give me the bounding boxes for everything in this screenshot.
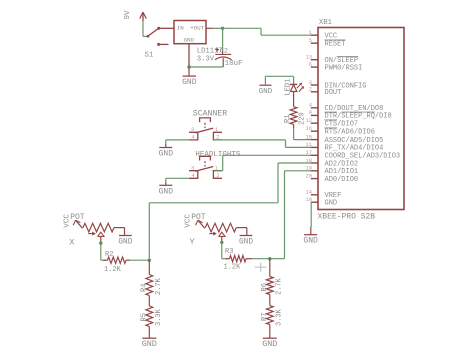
svg-text:3: 3: [309, 80, 312, 86]
voltage regulator IC1 LD1117 box: [174, 21, 206, 44]
wire X node up and right to XBee AD2 pin 18: [149, 163, 311, 260]
wire Y node right and up to XBee AD1 pin 19: [270, 171, 311, 259]
svg-text:18: 18: [306, 158, 312, 164]
pushbutton HEADLIGHTS S3: [189, 156, 222, 178]
svg-text:GND: GND: [142, 339, 157, 349]
XB1 pin 3 DIN/CONFIG: [309, 80, 367, 91]
capacitor C2 10uF polarized: [215, 48, 232, 67]
svg-text:5: 5: [309, 38, 312, 44]
label LED1: [285, 79, 293, 96]
svg-text:GND: GND: [259, 88, 273, 96]
svg-text:RESET: RESET: [325, 41, 346, 49]
XB1 pin 19 AD1/DIO1: [306, 166, 359, 177]
svg-text:4: 4: [191, 173, 194, 179]
XB1 pin 15 ASSOC/AD5/DIO5: [306, 134, 384, 145]
svg-text:+OUT: +OUT: [190, 25, 204, 32]
svg-text:GND: GND: [118, 239, 132, 247]
ground symbol below HEADLIGHTS: [159, 185, 174, 196]
node junction regulator ground: [187, 65, 190, 68]
svg-text:2: 2: [309, 87, 312, 93]
XB1 pin 4 CD/DOUT_EN/DO8: [309, 103, 384, 114]
switch S1: [145, 27, 175, 60]
XB1 pin 17 COORD_SEL/AD3/DIO3: [306, 150, 401, 161]
svg-text:AD2/DIO2: AD2/DIO2: [325, 160, 359, 168]
svg-text:9: 9: [309, 110, 312, 116]
svg-text:17: 17: [306, 150, 312, 156]
svg-text:R4: R4: [140, 284, 148, 292]
label 2.7K for R4: [155, 277, 163, 295]
wire R1 to XBee ASSOC pin 15: [294, 128, 311, 140]
svg-text:4: 4: [309, 103, 312, 109]
XB1 pin 2 DOUT: [309, 87, 342, 98]
label 1.2K for R3: [224, 264, 242, 272]
XB1 pin 16 RTS/AD6/DIO6: [306, 126, 375, 137]
label LD1117 3.3V: [197, 48, 223, 64]
svg-text:20: 20: [306, 173, 312, 179]
svg-text:2.7K: 2.7K: [155, 277, 163, 295]
svg-text:XB1: XB1: [319, 19, 332, 27]
svg-text:DOUT: DOUT: [325, 89, 342, 97]
label XB1: [319, 19, 332, 27]
label R1: [284, 115, 292, 123]
wire regulator OUT to node: [206, 27, 223, 29]
ground symbol near LED1: [259, 85, 273, 96]
ground symbol below XBee: [303, 227, 318, 246]
wire 9V to switch S1: [143, 21, 148, 37]
svg-text:4: 4: [191, 135, 194, 141]
pin labels SCANNER: [191, 127, 220, 141]
svg-text:3: 3: [191, 166, 194, 172]
label HEADLIGHTS: [195, 151, 241, 159]
XB1 pin 18 AD2/DIO2: [306, 158, 359, 169]
XB1 pin 10 GND: [306, 197, 338, 208]
svg-text:S1: S1: [145, 52, 154, 60]
resistor R5: [146, 306, 153, 338]
svg-text:AD0/DIO0: AD0/DIO0: [325, 176, 359, 184]
svg-text:11: 11: [306, 142, 312, 148]
XB1 pin 14 VREF: [306, 190, 342, 201]
svg-text:GND: GND: [239, 239, 253, 247]
label VCC for pot X: [64, 214, 72, 228]
label 3.3K for R5: [155, 308, 163, 326]
IC XB1 XBEE-PRO S2B box: [318, 28, 404, 210]
svg-text:RF_TX/AD4/DIO4: RF_TX/AD4/DIO4: [325, 145, 384, 153]
label R5: [140, 313, 148, 321]
svg-text:GND: GND: [262, 339, 277, 349]
svg-text:19: 19: [306, 166, 312, 172]
wire OUT node to XBee VCC pin 1: [223, 28, 311, 35]
label 220: [299, 112, 307, 125]
XB1 pin 12 CTS/DIO7: [306, 118, 359, 129]
svg-text:1: 1: [309, 30, 312, 36]
wire XBee GND pin 10 down: [310, 202, 312, 227]
svg-text:SCANNER: SCANNER: [193, 109, 227, 118]
svg-text:16: 16: [306, 126, 312, 132]
XB1 pin 9 DTR/SLEEP_RQ/DI8: [309, 110, 392, 121]
svg-text:14: 14: [306, 190, 312, 196]
svg-text:R5: R5: [140, 313, 148, 321]
resistor R4: [146, 260, 153, 306]
svg-text:9V: 9V: [124, 10, 132, 20]
svg-text:3.3K: 3.3K: [275, 308, 283, 326]
label 2.7K for R6: [275, 277, 283, 295]
pushbutton SCANNER S2: [189, 118, 222, 140]
wire X wiper node down to R2: [101, 243, 106, 260]
svg-text:LED1: LED1: [285, 79, 293, 96]
label POT for pot Y: [191, 213, 206, 222]
LED LED1: [290, 83, 304, 99]
svg-text:ASSOC/AD5/DIO5: ASSOC/AD5/DIO5: [325, 137, 384, 145]
svg-text:GND: GND: [159, 187, 174, 196]
svg-text:1.2K: 1.2K: [224, 264, 242, 272]
svg-text:GND: GND: [159, 150, 174, 159]
svg-text:X: X: [69, 237, 74, 247]
resistor R1: [290, 99, 297, 129]
wire Y wiper node down to R3: [222, 242, 228, 258]
label C2: [220, 47, 228, 55]
label VCC for pot Y: [185, 214, 193, 228]
svg-text:R7: R7: [261, 313, 269, 321]
label R2: [105, 251, 113, 259]
svg-text:IN: IN: [177, 25, 184, 32]
label R7: [261, 313, 269, 321]
ground symbol for pot Y: [239, 236, 253, 247]
wire SCANNER to ground: [166, 140, 189, 147]
svg-text:10uF: 10uF: [225, 60, 243, 68]
svg-text:13: 13: [306, 55, 312, 61]
svg-text:2.7K: 2.7K: [275, 277, 283, 295]
label SCANNER: [193, 109, 227, 118]
svg-text:AD1/DIO1: AD1/DIO1: [325, 168, 359, 176]
svg-text:R6: R6: [261, 283, 269, 291]
label POT for pot X: [70, 213, 85, 222]
resistor R7: [266, 306, 273, 339]
resistor R2: [104, 257, 131, 263]
label XBEE-PRO S2B: [318, 213, 376, 222]
potentiometer R_Y: [196, 220, 247, 242]
resistor R3: [226, 256, 253, 262]
label 1.2K: [104, 266, 122, 274]
XB1 pin 11 RF_TX/AD4/DIO4: [306, 142, 384, 153]
svg-text:GND: GND: [325, 200, 338, 208]
svg-text:12: 12: [306, 118, 312, 124]
XB1 pin 20 AD0/DIO0: [306, 173, 359, 184]
svg-text:15: 15: [306, 134, 312, 140]
svg-text:RTS/AD6/DIO6: RTS/AD6/DIO6: [325, 129, 375, 137]
wire capacitor C2 to regulator GND: [189, 66, 223, 68]
svg-text:3.3V: 3.3V: [197, 55, 215, 63]
label R6: [261, 283, 269, 291]
wire HEADLIGHTS to ground: [166, 178, 189, 185]
ground symbol below R5: [142, 338, 157, 349]
wire R2 to node: [130, 259, 149, 261]
svg-text:GND: GND: [184, 37, 195, 44]
pin labels HEADLIGHTS: [191, 166, 220, 180]
svg-text:VCC: VCC: [325, 33, 338, 41]
XB1 pin 5 RESET: [309, 38, 346, 49]
ground symbol below R7: [262, 338, 277, 349]
svg-text:10: 10: [306, 197, 312, 203]
wire node down to capacitor C2: [222, 28, 224, 51]
node junction X wiper: [99, 242, 102, 245]
svg-text:PWM0/RSSI: PWM0/RSSI: [325, 64, 363, 72]
wire ground to LED1 cathode: [265, 76, 293, 84]
svg-text:C2: C2: [220, 47, 228, 55]
label X: [69, 237, 74, 247]
wire HEADLIGHTS to XBee COORD_SEL pin 17: [214, 155, 311, 170]
wire R3 to node: [252, 258, 270, 260]
wire SCANNER to XBee RF_TX pin 11: [214, 140, 311, 148]
XB1 pin 6 PWM0/RSSI: [309, 62, 363, 73]
svg-text:3.3K: 3.3K: [155, 308, 163, 326]
power supply 9V symbol: [124, 10, 147, 21]
svg-text:6: 6: [309, 62, 312, 68]
svg-text:GND: GND: [303, 237, 318, 246]
resistor R6: [266, 259, 273, 306]
label R3: [225, 248, 233, 256]
svg-text:1: 1: [215, 127, 218, 133]
node junction X divider: [148, 259, 151, 262]
label R4: [140, 284, 148, 292]
ground symbol below SCANNER: [159, 148, 174, 159]
XB1 pin 1 VCC: [309, 30, 337, 41]
svg-text:2: 2: [216, 173, 219, 179]
node junction at regulator output: [221, 27, 224, 30]
svg-text:R3: R3: [225, 248, 233, 256]
label Y: [190, 237, 195, 247]
XB1 pin 13 ON/SLEEP: [306, 55, 359, 66]
svg-text:Y: Y: [190, 237, 195, 247]
node junction Y wiper: [220, 241, 223, 244]
svg-text:3: 3: [191, 127, 194, 133]
node junction Y divider: [268, 257, 271, 260]
svg-text:XBEE-PRO S2B: XBEE-PRO S2B: [318, 213, 376, 222]
potentiometer R_X: [73, 220, 124, 243]
svg-text:1.2K: 1.2K: [104, 266, 122, 274]
origin cross marker: [255, 263, 266, 272]
regulator GND pin wire: [188, 44, 190, 67]
svg-text:GND: GND: [182, 78, 197, 87]
svg-text:CTS/DIO7: CTS/DIO7: [325, 121, 359, 129]
ground symbol for pot X: [118, 236, 132, 247]
ground symbol below regulator: [182, 67, 197, 87]
svg-text:R1: R1: [284, 115, 292, 123]
label 10uF: [225, 60, 243, 68]
label 3.3K for R7: [275, 308, 283, 326]
